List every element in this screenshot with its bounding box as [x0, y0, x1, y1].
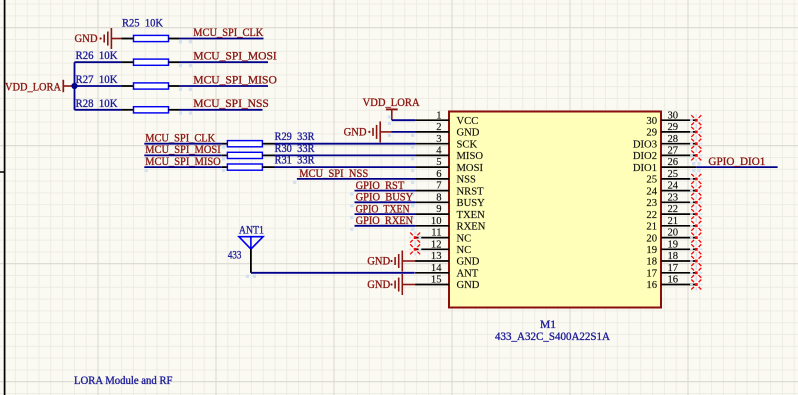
- wire R30 to pin 4: [275, 154, 416, 156]
- wire net MCU_SPI_MOSI (top): [179, 61, 268, 63]
- svg-text:17: 17: [646, 269, 657, 280]
- pin 3 (SCK): [415, 134, 477, 151]
- svg-text:433: 433: [228, 248, 242, 261]
- svg-text:DIO2: DIO2: [633, 151, 657, 162]
- svg-text:DIO1: DIO1: [633, 163, 657, 174]
- svg-text:GND: GND: [75, 32, 98, 45]
- pin 23 (23): [646, 192, 696, 209]
- svg-text:22: 22: [646, 210, 657, 221]
- wire MCU_SPI_NSS to pin 6: [297, 178, 415, 180]
- no-ERC marker pin 30: [690, 114, 702, 126]
- svg-text:18: 18: [668, 251, 679, 262]
- no-ERC marker pin 24: [690, 184, 702, 196]
- ground GND at pin 15: [367, 274, 402, 295]
- resistor R25: [122, 35, 180, 41]
- resistor R27: [122, 83, 179, 89]
- wire R29 to pin 3: [275, 143, 416, 145]
- svg-text:VCC: VCC: [457, 116, 479, 127]
- ground GND at pin 2: [344, 121, 381, 142]
- svg-text:TXEN: TXEN: [457, 210, 486, 221]
- no-ERC marker pin 11: [409, 231, 421, 243]
- svg-text:25: 25: [668, 169, 679, 180]
- wire VDD bus to R26: [75, 61, 123, 63]
- svg-text:GND: GND: [457, 280, 480, 291]
- svg-text:MOSI: MOSI: [457, 163, 484, 174]
- svg-text:NRST: NRST: [457, 186, 485, 197]
- svg-text:22: 22: [668, 204, 679, 215]
- wire GPIO_BUSY to pin 8: [355, 201, 416, 203]
- op-amp/module IC M1 body: [449, 112, 661, 308]
- svg-text:26: 26: [668, 157, 679, 168]
- wire GPIO_TXEN to pin 9: [355, 213, 416, 215]
- svg-text:MCU_SPI_NSS: MCU_SPI_NSS: [193, 97, 268, 110]
- svg-text:R26 10K: R26 10K: [76, 49, 119, 62]
- svg-text:NC: NC: [457, 245, 472, 256]
- svg-text:LORA Module and RF: LORA Module and RF: [74, 374, 173, 387]
- pin ANT1 lead: [250, 249, 252, 273]
- svg-text:21: 21: [646, 222, 657, 233]
- svg-text:29: 29: [646, 128, 657, 139]
- svg-text:R27 10K: R27 10K: [76, 73, 119, 86]
- svg-text:19: 19: [668, 239, 679, 250]
- svg-text:R31 33R: R31 33R: [275, 154, 315, 167]
- pin 30 (30): [646, 110, 696, 127]
- svg-text:16: 16: [646, 280, 657, 291]
- svg-text:RXEN: RXEN: [457, 222, 486, 233]
- svg-text:23: 23: [646, 198, 657, 209]
- wire net MCU_SPI_MISO (top): [179, 85, 268, 87]
- svg-text:433_A32C_S400A22S1A: 433_A32C_S400A22S1A: [495, 330, 611, 343]
- no-ERC marker pin 16: [690, 278, 702, 290]
- no-ERC marker pin 19: [690, 243, 702, 255]
- svg-text:20: 20: [668, 228, 679, 239]
- svg-text:5: 5: [436, 157, 441, 168]
- svg-text:6: 6: [436, 169, 441, 180]
- pin 26 (DIO1): [633, 157, 696, 174]
- wire MCU_SPI_MISO to R31: [144, 166, 222, 168]
- pin 12 (NC): [415, 239, 471, 256]
- no-ERC marker pin 17: [690, 267, 702, 279]
- pin 11 (NC): [415, 228, 471, 245]
- wire MCU_SPI_CLK to R29: [144, 143, 222, 145]
- pin 22 (22): [646, 204, 696, 221]
- pin 28 (DIO3): [633, 134, 696, 151]
- wire net MCU_SPI_NSS (top): [179, 109, 263, 111]
- svg-text:MCU_SPI_MISO: MCU_SPI_MISO: [145, 155, 221, 168]
- wire VDD_LORA stub: [72, 85, 75, 87]
- pin 17 (17): [646, 263, 696, 280]
- no-ERC marker pin 25: [690, 173, 702, 185]
- no-ERC marker pin 29: [690, 126, 702, 138]
- svg-text:GND: GND: [367, 255, 390, 268]
- svg-text:8: 8: [436, 192, 441, 203]
- svg-text:14: 14: [431, 263, 442, 274]
- wire VDD_LORA to pin 1: [392, 119, 415, 121]
- svg-text:4: 4: [436, 146, 442, 157]
- wire VDD bus to R28: [75, 109, 123, 111]
- pin 5 (MOSI): [415, 157, 483, 174]
- pin 29 (29): [646, 122, 696, 139]
- ground GND at pin 13: [367, 251, 402, 272]
- svg-text:3: 3: [436, 134, 441, 145]
- pin 19 (19): [646, 239, 696, 256]
- wire MCU_SPI_MOSI to R30: [144, 154, 222, 156]
- svg-text:NC: NC: [457, 233, 472, 244]
- svg-text:1: 1: [436, 110, 441, 121]
- no-ERC marker pin 28: [690, 138, 702, 150]
- no-ERC marker pin 23: [690, 196, 702, 208]
- pin 14 (ANT): [415, 263, 479, 280]
- svg-text:30: 30: [646, 116, 657, 127]
- wire GND to pin 2: [391, 131, 415, 133]
- svg-text:GPIO_DIO1: GPIO_DIO1: [708, 155, 765, 168]
- svg-text:29: 29: [668, 122, 679, 133]
- svg-text:19: 19: [646, 245, 657, 256]
- svg-text:15: 15: [431, 275, 442, 286]
- svg-text:28: 28: [668, 134, 679, 145]
- svg-text:GND: GND: [457, 128, 480, 139]
- svg-text:SCK: SCK: [457, 139, 478, 150]
- pin 13 (GND): [415, 251, 480, 268]
- pin 2 (GND): [415, 122, 480, 139]
- svg-text:GND: GND: [457, 257, 480, 268]
- svg-text:ANT: ANT: [457, 269, 479, 280]
- pin 24 (24): [646, 181, 696, 198]
- wire GND stub to R25: [111, 38, 121, 40]
- svg-text:ANT1: ANT1: [239, 223, 264, 236]
- no-ERC marker pin 20: [690, 231, 702, 243]
- junction VDD_LORA bus: [71, 83, 77, 89]
- pin 27 (DIO2): [633, 146, 696, 163]
- power port VDD_LORA (left): [5, 80, 72, 94]
- pin 9 (TXEN): [415, 204, 485, 221]
- svg-text:R25 10K: R25 10K: [122, 17, 164, 30]
- svg-text:13: 13: [431, 251, 442, 262]
- svg-text:MCU_SPI_CLK: MCU_SPI_CLK: [193, 26, 264, 39]
- pin 6 (NSS): [415, 169, 476, 186]
- svg-text:GND: GND: [367, 278, 390, 291]
- resistor R29: [222, 141, 275, 147]
- resistor R28: [122, 107, 179, 113]
- svg-text:R28 10K: R28 10K: [76, 97, 119, 110]
- pin 10 (RXEN): [415, 216, 486, 233]
- no-ERC marker pin 22: [690, 208, 702, 220]
- svg-text:24: 24: [668, 181, 679, 192]
- svg-text:DIO3: DIO3: [633, 139, 657, 150]
- svg-text:24: 24: [646, 186, 657, 197]
- wire GND stub pin 2: [380, 131, 391, 133]
- pin 4 (MISO): [415, 146, 483, 163]
- svg-text:MCU_SPI_MOSI: MCU_SPI_MOSI: [193, 50, 277, 63]
- svg-text:10: 10: [431, 216, 442, 227]
- pin 20 (20): [646, 228, 696, 245]
- pin 8 (BUSY): [415, 192, 485, 209]
- svg-text:20: 20: [646, 233, 657, 244]
- wire GND stub pin 13: [402, 260, 415, 262]
- pin 15 (GND): [415, 275, 480, 292]
- sheet border line: [0, 0, 5, 395]
- wire GPIO_DIO1 from pin 26: [696, 166, 777, 168]
- svg-text:NSS: NSS: [457, 175, 477, 186]
- wire net MCU_SPI_CLK (top): [179, 38, 264, 40]
- pin 7 (NRST): [415, 181, 484, 198]
- pin 18 (18): [646, 251, 696, 268]
- svg-text:30: 30: [668, 110, 679, 121]
- wire GND stub pin 15: [402, 284, 415, 286]
- svg-text:25: 25: [646, 175, 657, 186]
- svg-text:VDD_LORA: VDD_LORA: [5, 81, 62, 94]
- pin 21 (21): [646, 216, 696, 233]
- svg-text:MCU_SPI_MISO: MCU_SPI_MISO: [193, 73, 276, 86]
- svg-text:MISO: MISO: [457, 151, 484, 162]
- pin 1 (VCC): [415, 110, 478, 127]
- wire R31 to pin 5: [275, 166, 416, 168]
- svg-text:12: 12: [431, 239, 442, 250]
- power port VDD_LORA (top): [363, 96, 421, 120]
- ground GND at R25: [75, 28, 112, 49]
- pin 16 (16): [646, 275, 696, 292]
- svg-text:21: 21: [668, 216, 679, 227]
- svg-text:BUSY: BUSY: [457, 198, 486, 209]
- wire GPIO_RST to pin 7: [355, 190, 416, 192]
- svg-text:2: 2: [436, 122, 441, 133]
- resistor R31: [222, 164, 275, 170]
- no-ERC marker pin 18: [690, 255, 702, 267]
- no-ERC marker pin 21: [690, 220, 702, 232]
- wire GPIO_RXEN to pin 10: [355, 225, 416, 227]
- wire VDD bus to R27: [75, 85, 123, 87]
- resistor R26: [122, 59, 179, 65]
- no-ERC marker pin 27: [690, 149, 702, 161]
- svg-text:16: 16: [668, 275, 679, 286]
- no-ERC marker pin 12: [409, 243, 421, 255]
- wire VDD_LORA vertical bus: [74, 62, 76, 110]
- wire ANT1 to pin 14: [251, 272, 415, 274]
- svg-text:27: 27: [668, 146, 679, 157]
- resistor R30: [222, 152, 275, 158]
- pin 25 (25): [646, 169, 696, 186]
- svg-text:18: 18: [646, 257, 657, 268]
- svg-text:GND: GND: [344, 126, 367, 139]
- svg-text:11: 11: [431, 228, 441, 239]
- svg-text:9: 9: [436, 204, 441, 215]
- svg-text:7: 7: [436, 181, 441, 192]
- svg-text:17: 17: [668, 263, 679, 274]
- svg-text:23: 23: [668, 192, 679, 203]
- antenna ANT1: [239, 223, 264, 249]
- svg-text:VDD_LORA: VDD_LORA: [363, 96, 421, 109]
